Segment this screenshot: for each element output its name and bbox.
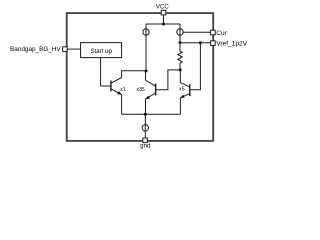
wire left current-source branch [145,24,147,71]
wire x5 collector drop [179,70,181,83]
pin gnd [143,138,148,143]
svg-text:Start up: Start up [91,48,113,55]
transistor x5 [189,84,191,96]
wire x35 collector drop [145,71,147,80]
wire x1 collector link [122,71,146,78]
node Vref tap [179,41,182,44]
node tail junction [144,113,147,116]
svg-text:x5: x5 [179,86,185,92]
svg-text:Bandgap_BG_HV: Bandgap_BG_HV [10,46,62,53]
resistor R1 [179,43,181,51]
wire Vref output [180,42,211,44]
wire x5 base drop [190,43,201,90]
wire VCC stub [163,15,165,24]
pin Vref_1p2V [211,41,216,46]
wire Bandgap pin to Start up [67,48,80,50]
svg-text:Cur: Cur [216,30,227,37]
node x5 base tap [199,41,202,44]
svg-text:gnd: gnd [140,143,151,150]
wire right current-source branch [179,24,181,43]
current source I3 [142,125,148,131]
svg-text:Vref_1p2V: Vref_1p2V [216,40,248,47]
wire x35 emitter drop [145,99,147,114]
wire x1 emitter drop [121,95,123,115]
wire emitter rail [122,113,181,115]
current source I2 [177,29,183,35]
svg-text:VCC: VCC [156,4,169,11]
transistor x35 [155,84,157,96]
wire x5 emitter drop [179,98,181,115]
current source I1 [143,29,149,35]
node B (resistor bottom / x5 collector / x35 base) [179,68,182,71]
transistor x1 [110,81,112,92]
block Start up [81,43,122,58]
node VCC rail junction [162,23,165,26]
wire x35 base link [156,70,181,90]
wire x1 base [101,85,111,87]
node A (left CS / x1 collector / x35 collector) [145,70,148,73]
wire top rail [146,23,180,25]
pin Cur [211,30,216,35]
pin VCC [161,10,166,15]
svg-text:x1: x1 [120,87,126,93]
pin Bandgap_BG_HV [63,47,68,52]
wire startup drop [100,58,102,86]
wire tail current-source branch [144,114,146,138]
block outline Bandgap_BG_HV [67,13,214,141]
svg-text:x35: x35 [136,87,144,93]
wire Cur output [183,31,210,33]
